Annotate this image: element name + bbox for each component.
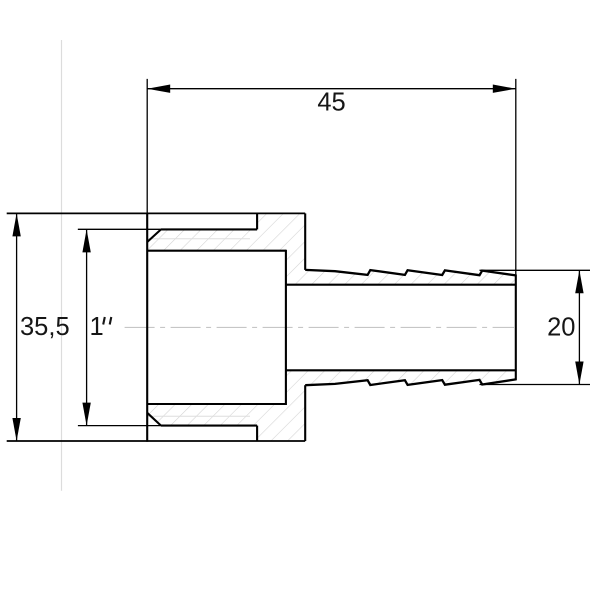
dim 35,5: dimension line [16, 213, 18, 441]
body right face top [304, 213, 306, 270]
bore line top [147, 250, 286, 252]
svg-text:1: 1 [90, 313, 104, 341]
step connector bottom [256, 426, 258, 441]
barb teeth profile top [305, 270, 516, 276]
dim 35,5: bottom arrow [12, 418, 20, 441]
centerline (axis) [125, 326, 514, 328]
svg-text:35,5: 35,5 [20, 313, 70, 341]
dim 20: top arrow [575, 270, 583, 293]
thread pitch faint line, top [148, 238, 250, 240]
barb bore bottom [286, 369, 516, 371]
thread line top (thin ext + thick) [78, 228, 161, 230]
dim 20: extension line bottom [480, 384, 591, 386]
construction guide line (faint vertical) [61, 40, 63, 491]
outer silhouette line top (with extension to left) [7, 212, 306, 214]
dim 20: extension line top [480, 269, 591, 271]
chamfer top [147, 229, 161, 242]
svg-text:20: 20 [547, 313, 575, 341]
svg-text:45: 45 [317, 89, 345, 117]
dim 45: extension line right (vertical) [515, 79, 517, 275]
step connector top [256, 213, 258, 229]
left face [146, 213, 148, 442]
chamfer bottom [147, 413, 161, 426]
dim 35,5: top arrow [12, 213, 20, 236]
hatched section, lower wall [147, 370, 516, 441]
dim 20: bottom arrow [575, 362, 583, 385]
barb bore top [286, 284, 516, 286]
dim 1": extension line top [78, 228, 161, 230]
hatched section, upper wall [147, 213, 516, 284]
dim 45: right arrow [493, 85, 516, 93]
dim 1": bottom arrow [82, 403, 90, 426]
thread pitch faint line, bottom [148, 415, 250, 417]
dim 45: dimension line [147, 88, 516, 90]
outer silhouette line bottom (with extension to left) [7, 440, 306, 442]
dim 1": dimension line [86, 229, 88, 425]
body right face bottom [304, 385, 306, 441]
thread line bottom (thin ext + thick) [78, 425, 161, 427]
bore line bottom [147, 403, 286, 405]
bore end wall [285, 250, 287, 405]
dim 45: extension line left (vertical) [146, 79, 148, 214]
dim 45: left arrow [147, 85, 170, 93]
barb end face [515, 274, 517, 380]
dim 20: dimension line [578, 270, 580, 384]
barb teeth profile bottom [305, 379, 516, 385]
dim 1": top arrow [82, 229, 90, 252]
